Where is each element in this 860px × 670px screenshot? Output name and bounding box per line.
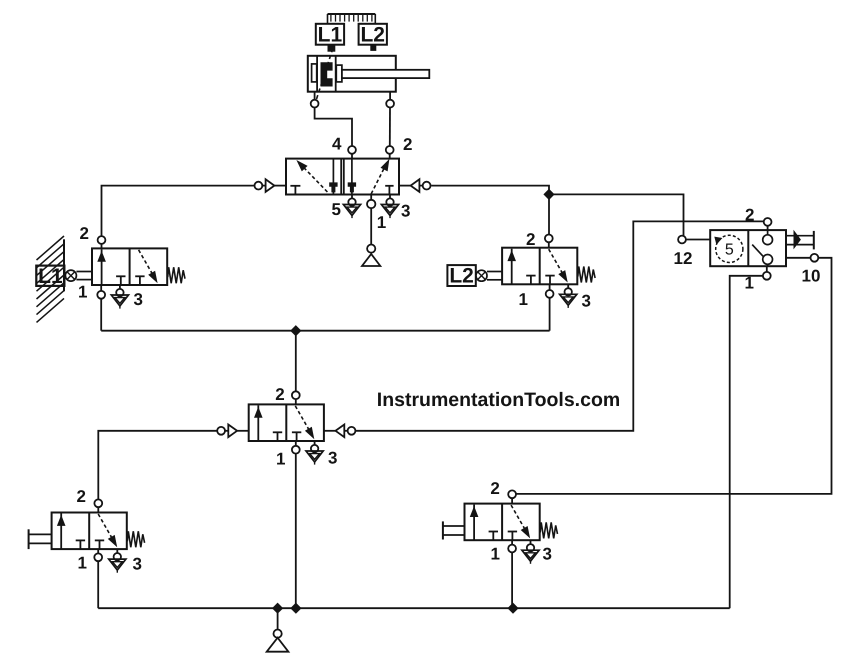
V2 pin label 3: [328, 449, 337, 468]
L2 pin label 2: [526, 230, 535, 249]
wire W12 S1 port 1 to bottom bus: [97, 561, 99, 608]
CT1 pin label 12: [674, 249, 693, 268]
wire W4a junction J1 to L2 port 2: [548, 194, 550, 234]
svg-text:3: 3: [401, 202, 410, 221]
V1 exhaust silencer port 5: [343, 195, 360, 219]
S1 pushbutton actuator: [29, 529, 52, 549]
cylinder A1: [308, 56, 430, 108]
counter CT1 (preset 5): [678, 218, 818, 280]
piston position link line: [316, 49, 333, 101]
CT1 pin label 2: [745, 206, 754, 225]
svg-text:5: 5: [332, 200, 341, 219]
V1 left pilot (pneumatic): [255, 179, 287, 192]
S1 exhaust port 3: [109, 549, 126, 573]
S1 pin label 1: [78, 554, 87, 573]
valve V1 5/2-way double pilot: [286, 146, 399, 208]
wire W4 V1 right pilot to junction J1 and counter CT1 port 12: [431, 186, 683, 236]
valve S1 return spring: [127, 531, 144, 547]
V1 pin label 4: [332, 135, 342, 154]
valve L2 3/2-way roller (rest): [502, 235, 577, 298]
svg-text:3: 3: [134, 290, 143, 309]
junction J2: [290, 325, 301, 336]
V2 left pilot (pneumatic): [217, 425, 248, 438]
junction J1: [543, 189, 554, 200]
watermark text: [377, 389, 620, 411]
svg-text:2: 2: [275, 385, 284, 404]
wire W14 junction J4 to source P2: [277, 608, 279, 629]
wire W16 CT1 port 10 to S2 port 2: [516, 258, 832, 494]
valve L2 roller actuator: [476, 270, 502, 281]
V2 exhaust port 3: [306, 441, 323, 465]
svg-text:12: 12: [674, 249, 693, 268]
S2 pin label 3: [543, 545, 552, 564]
CT1 pin label 10: [802, 267, 821, 286]
junction J3: [290, 603, 301, 614]
wire W10 bottom bus: [98, 607, 730, 609]
svg-text:2: 2: [526, 230, 535, 249]
L1 pin label 1: [78, 283, 87, 302]
junction J5: [507, 603, 518, 614]
svg-text:5: 5: [725, 242, 734, 259]
V1 pin label 2: [403, 135, 412, 154]
valve L2 return spring: [578, 267, 595, 283]
svg-text:L1: L1: [318, 23, 343, 46]
wire W15 S2 port 1 to junction J5: [511, 552, 513, 608]
svg-text:1: 1: [78, 554, 87, 573]
svg-text:3: 3: [543, 545, 552, 564]
V1 pin label 3: [401, 202, 410, 221]
wire W5 L1 port 1 to bus: [100, 299, 102, 331]
svg-text:2: 2: [77, 487, 86, 506]
wire W13 V2 right pilot to CT1 port 2: [356, 221, 764, 430]
wire W9 V2 port 1 to junction J3: [295, 454, 297, 609]
ruler tag L1: [316, 23, 344, 51]
valve L1 return spring: [168, 267, 185, 283]
wire W1 cylinder left port to valve V1 port 4: [315, 108, 352, 147]
valve L1 3/2-way roller (actuated): [92, 236, 167, 299]
S2 pushbutton actuator: [443, 521, 465, 539]
wire W11 S1 port 2 to V2 left pilot: [98, 431, 217, 500]
wire W17 CT1 port 1 to bottom bus: [730, 276, 763, 608]
S2 pin label 1: [491, 545, 500, 564]
L2 pin label 3: [582, 292, 591, 311]
svg-text:L2: L2: [449, 265, 474, 288]
V2 pin label 1: [276, 450, 285, 469]
pressure source P2: [267, 630, 289, 652]
valve L2 tag: [447, 265, 475, 288]
svg-text:2: 2: [80, 224, 89, 243]
S1 pin label 2: [77, 487, 86, 506]
svg-text:L1: L1: [38, 265, 63, 288]
pressure source P1: [362, 245, 380, 267]
L1 pin label 2: [80, 224, 89, 243]
wire W3 V1 left pilot to L1 port 2: [102, 186, 255, 237]
L1 exhaust port 3: [111, 285, 128, 309]
V1 pin label 1: [377, 213, 386, 232]
ruler tag L2: [359, 23, 387, 51]
distance ruler for cylinder: [328, 14, 376, 24]
svg-text:4: 4: [332, 135, 342, 154]
L1 pin label 3: [134, 290, 143, 309]
V2 pin label 2: [275, 385, 284, 404]
V1 exhaust silencer port 3: [381, 195, 398, 219]
svg-text:InstrumentationTools.com: InstrumentationTools.com: [377, 389, 620, 411]
wire W6 supply bus to limit valves: [101, 330, 549, 332]
svg-text:2: 2: [403, 135, 412, 154]
svg-text:1: 1: [491, 545, 500, 564]
svg-text:1: 1: [377, 213, 386, 232]
valve L1 roller actuator: [65, 270, 92, 281]
valve V2 3/2-way double pilot: [249, 391, 324, 453]
V1 right pilot (pneumatic): [399, 179, 431, 192]
V1 pin label 5: [332, 200, 341, 219]
wire W7 L2 port 1 to bus: [549, 298, 551, 331]
L2 pin label 1: [519, 290, 528, 309]
svg-text:2: 2: [490, 479, 499, 498]
svg-text:1: 1: [78, 283, 87, 302]
wire W19 V1 port 1 to source P1: [370, 208, 372, 244]
wall (actuating cam) with hatching: [36, 236, 64, 322]
valve S1 3/2-way pushbutton: [52, 499, 127, 561]
svg-text:3: 3: [582, 292, 591, 311]
valve L1 tag: [36, 265, 64, 288]
L2 exhaust port 3: [560, 284, 577, 308]
valve S2 return spring: [540, 522, 557, 538]
wire W8 junction J2 to valve V2 port 2: [295, 331, 297, 392]
svg-text:L2: L2: [360, 23, 385, 46]
wire W2 cylinder right port to valve V1 port 2: [389, 108, 391, 147]
V2 right pilot (pneumatic): [324, 425, 356, 438]
svg-text:3: 3: [133, 555, 142, 574]
svg-text:1: 1: [276, 450, 285, 469]
S2 pin label 2: [490, 479, 499, 498]
S2 exhaust port 3: [522, 540, 539, 564]
S1 pin label 3: [133, 555, 142, 574]
valve S2 3/2-way pushbutton: [465, 490, 540, 552]
junction J4: [272, 603, 283, 614]
CT1 pin label 1: [745, 274, 754, 293]
svg-text:1: 1: [519, 290, 528, 309]
svg-text:3: 3: [328, 449, 337, 468]
svg-text:10: 10: [802, 267, 821, 286]
